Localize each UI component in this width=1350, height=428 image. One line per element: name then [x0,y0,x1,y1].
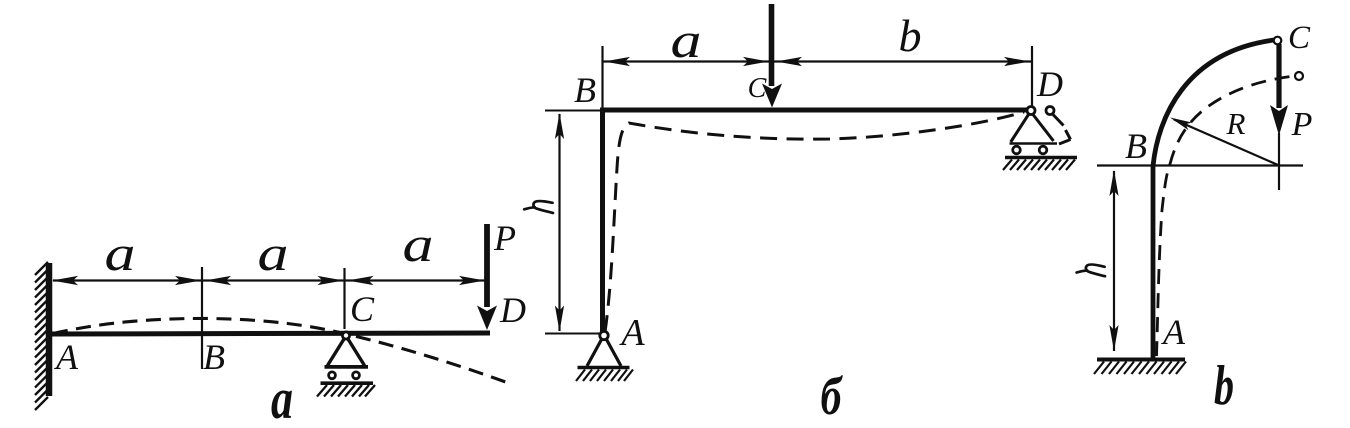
svg-text:a: a [258,225,289,281]
rollers [329,372,336,379]
base hatching [1094,362,1186,375]
svg-text:P: P [493,218,516,258]
pin base [578,366,630,370]
svg-text:б: б [821,366,844,426]
extension line at D [1031,46,1033,108]
radius R line [1174,120,1278,166]
dashed deflection curve (column and beam) [605,112,1024,332]
svg-text:C: C [1288,20,1311,56]
wall hatching [35,262,48,410]
dashed deflection curve [53,318,511,384]
roller support at C: hinge circle [342,332,349,339]
node tick C [343,268,345,329]
support D triangle [1011,115,1054,143]
svg-text:a: a [105,225,136,281]
label h (rotated) [524,201,553,213]
roller support at D: hinge circles [1027,107,1035,115]
dashed deflection curve [1157,76,1295,356]
load arrow at C [769,4,775,86]
support D base [1010,142,1058,145]
triangle base [325,365,369,369]
svg-text:B: B [574,70,596,110]
svg-text:A: A [618,312,645,354]
svg-text:D: D [499,290,526,330]
svg-text:a: a [403,216,434,272]
h dimension line [1113,171,1115,351]
label h (rotated) [1077,264,1105,276]
column A-B [1151,166,1156,359]
svg-text:b: b [899,10,922,61]
extension line at A level [545,333,599,335]
fixed wall at A [46,263,53,396]
fixed base ground [1097,358,1185,362]
ground line [321,381,374,385]
support triangle [328,339,365,366]
support D rollers [1013,146,1021,154]
svg-text:b: b [1214,355,1234,417]
dim arrowheads [52,276,485,285]
load P arrow at D [484,224,490,307]
support D ground [1005,156,1077,160]
pin triangle [587,340,621,367]
column top extension line [601,46,603,108]
svg-text:C: C [748,73,767,104]
beam B-D [600,108,1032,113]
ground hatching [317,385,375,397]
node circle at C [1274,37,1282,45]
svg-text:B: B [1125,126,1147,166]
beam left extension line [545,110,600,112]
support D tilted link [1053,115,1071,145]
support D hatching [1003,160,1075,171]
curved member B-C [1153,40,1274,166]
dim arrowheads [604,57,1030,66]
svg-text:P: P [1291,106,1313,143]
svg-text:B: B [203,337,225,377]
beam A-D [50,333,490,334]
svg-text:A: A [54,337,79,377]
column B-A [600,108,605,333]
h dimension line [558,114,560,331]
svg-text:C: C [350,289,375,329]
svg-text:R: R [1226,106,1246,141]
dimension line a-a-a [53,279,486,281]
pin support at A: hinge circle [600,331,608,339]
B level line [1097,164,1303,166]
svg-text:A: A [1161,312,1186,352]
pin hatching [576,370,633,382]
svg-text:D: D [1036,64,1063,104]
dimension line a,b [603,60,1033,62]
displaced node circle [1295,72,1303,80]
svg-text:a: a [671,12,702,68]
svg-text:a: a [271,366,293,428]
node tick B [201,267,203,369]
P line lower extension [1278,133,1280,190]
load P arrow [1276,44,1281,108]
